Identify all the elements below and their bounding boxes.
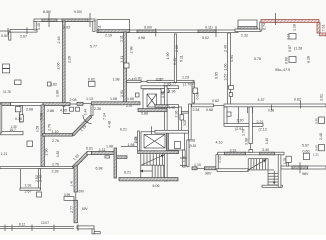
wall: W5 vertical to lobby (249, 107, 252, 144)
svg-text:1.91: 1.91 (25, 184, 32, 188)
dimension tick 2 (89, 13, 91, 27)
box 0.60 mid right (289, 57, 296, 63)
svg-text:5.11: 5.11 (180, 55, 184, 62)
svg-text:3.98: 3.98 (245, 138, 249, 145)
door leafs between corridor walls (161, 89, 165, 93)
box 0.60 right (304, 153, 310, 159)
rotated labels (35, 23, 324, 213)
svg-text:1.96: 1.96 (169, 90, 176, 94)
dimension tick on left wall (26, 28, 28, 35)
window: hatch2 in top wall (62, 19, 88, 22)
stair core center (119, 86, 218, 181)
svg-text:6.06: 6.06 (153, 184, 160, 188)
svg-text:2.36: 2.36 (175, 111, 179, 118)
door leaf box (193, 88, 198, 94)
svg-text:0.98: 0.98 (315, 118, 319, 124)
svg-text:95u–47.9: 95u–47.9 (275, 68, 290, 72)
svg-text:2.36: 2.36 (94, 107, 101, 111)
svg-text:1.21: 1.21 (313, 153, 319, 157)
svg-text:2.39: 2.39 (52, 170, 59, 174)
svg-text:2.06: 2.06 (57, 63, 61, 70)
svg-text:3.61: 3.61 (320, 94, 324, 101)
wall: top wall center long (130, 30, 239, 33)
stairs: flight separator (141, 164, 165, 166)
svg-text:3.82: 3.82 (50, 83, 57, 87)
wall: bath partition vertical x180 (179, 107, 182, 131)
wall: wing bottom right (281, 166, 326, 169)
door arc from H1 (83, 115, 92, 124)
wall: K vertical (228, 33, 231, 105)
svg-text:1.86: 1.86 (169, 106, 176, 110)
wall: H2 horizontal left part (192, 104, 214, 107)
svg-text:1.08: 1.08 (110, 97, 117, 101)
svg-text:16.7: 16.7 (10, 128, 16, 132)
svg-text:9.00\: 9.00\ (74, 10, 82, 14)
dimension tick (48, 13, 50, 27)
svg-text:0.60: 0.60 (303, 149, 310, 153)
svg-text:2.98: 2.98 (130, 47, 134, 54)
svg-text:2.31: 2.31 (99, 148, 106, 152)
svg-text:1.66: 1.66 (127, 97, 134, 101)
fixture boxes (15, 107, 21, 112)
svg-text:(1.28: (1.28 (294, 47, 302, 51)
wall: left step stub (9, 32, 11, 40)
U-room bottom wall (20, 188, 41, 190)
svg-text:6.21: 6.21 (120, 128, 127, 132)
pilaster above wing wall (286, 156, 291, 162)
wall: corridor H y81 right (147, 80, 194, 82)
svg-text:1.82: 1.82 (56, 151, 60, 157)
svg-text:7.14: 7.14 (103, 113, 107, 120)
svg-text:1.98: 1.98 (188, 139, 195, 143)
svg-text:1.13: 1.13 (86, 97, 93, 101)
wall: I white cap (87, 151, 92, 154)
wall: protrusion bottom L (77, 226, 94, 229)
svg-text:1.91: 1.91 (120, 90, 124, 97)
wall: core right vertical (165, 86, 168, 181)
door post left of elev1 (136, 93, 140, 97)
window: hatch center (137, 30, 156, 33)
box 0.62 room symbol (89, 81, 96, 86)
wall: stair bottom hatched (119, 178, 178, 181)
svg-text:1.10: 1.10 (194, 163, 201, 167)
elevator 1 inner X (147, 94, 157, 107)
stairs: left boundary line (140, 154, 142, 178)
wall: storage left vertical (224, 107, 227, 124)
svg-text:2.46: 2.46 (70, 180, 74, 186)
svg-text:(1.70: (1.70 (183, 83, 191, 87)
svg-text:4.11: 4.11 (120, 56, 124, 63)
wall: right section before balcony (235, 29, 261, 32)
svg-text:1.29: 1.29 (182, 76, 189, 80)
red rotated labels (293, 24, 326, 32)
window: hatch in top wall (42, 19, 57, 22)
svg-text:2.08: 2.08 (70, 98, 77, 102)
svg-text:1.58: 1.58 (36, 126, 40, 132)
svg-text:3.57: 3.57 (224, 74, 228, 81)
svg-text:2.48: 2.48 (319, 133, 323, 140)
wall: hatched landing below elev2 (138, 151, 179, 154)
stairs2: flight bottom line (248, 169, 274, 171)
svg-text:2.22: 2.22 (157, 78, 164, 82)
wall: I hatched horizontal (92, 151, 117, 154)
svg-text:8.12: 8.12 (19, 222, 25, 226)
svg-text:3.31: 3.31 (230, 148, 237, 152)
svg-text:9.00\: 9.00\ (144, 26, 152, 30)
wall: E horizontal (0, 167, 73, 169)
svg-text:0.62: 0.62 (294, 98, 301, 102)
svg-text:2.93: 2.93 (63, 26, 70, 30)
wall: left edge (0, 104, 2, 133)
wall: H1 hatch mid (43, 103, 70, 106)
svg-text:4.94: 4.94 (230, 55, 234, 62)
svg-text:98V: 98V (302, 172, 309, 176)
svg-text:1.76: 1.76 (283, 158, 287, 164)
svg-text:10.07: 10.07 (41, 221, 49, 225)
wall: protrusion vertical hatched upper (74, 166, 78, 192)
svg-text:0.62: 0.62 (88, 78, 95, 82)
wall: top wall left section (34, 19, 95, 22)
svg-text:11.76: 11.76 (3, 90, 11, 94)
wall: W1 hatched apartment divider (43, 134, 73, 137)
wall: vertical x187 lower (187, 140, 189, 167)
corridor box right of elev2 (169, 133, 185, 150)
stairs2: down arrow (273, 171, 275, 184)
wall: step up vertical (34, 21, 36, 30)
tiny box near 3.82 (48, 82, 52, 86)
wall: stair2 bottom (262, 185, 282, 187)
svg-text:1.90: 1.90 (166, 53, 170, 60)
wall: vertical x193 (192, 82, 195, 103)
svg-text:9.11\: 9.11\ (205, 26, 213, 30)
wall: main vertical V1 (63, 21, 66, 106)
svg-text:2.08: 2.08 (26, 108, 33, 112)
svg-text:2.20: 2.20 (237, 119, 244, 123)
svg-text:2.67: 2.67 (25, 190, 32, 194)
svg-text:1.91: 1.91 (161, 91, 165, 98)
svg-text:4.37: 4.37 (258, 98, 265, 102)
svg-text:4.48: 4.48 (108, 121, 112, 128)
wall: vertical x189 upper (189, 104, 192, 140)
box 0.61 top right (289, 34, 296, 40)
wall: vertical x91 below H1 (91, 105, 93, 116)
dimension tick (215, 26, 217, 37)
svg-text:0.50: 0.50 (1, 34, 8, 38)
dimension tick above elev2 (151, 126, 153, 134)
dimension tick at window end (155, 29, 157, 37)
wall: hatched below elev1 (138, 109, 167, 112)
svg-text:1.22: 1.22 (218, 156, 222, 163)
svg-text:7.11: 7.11 (98, 25, 102, 32)
svg-text:8.28: 8.28 (307, 56, 311, 63)
wall: step vertical x217 (216, 155, 218, 169)
svg-text:2.40: 2.40 (224, 45, 228, 52)
stairs: flight A treads (143, 154, 145, 165)
wall red: top-right horizontal (261, 20, 319, 23)
svg-text:0.68: 0.68 (206, 108, 213, 112)
svg-text:0.61: 0.61 (86, 147, 93, 151)
svg-text:1.66: 1.66 (224, 64, 228, 71)
svg-text:0.74: 0.74 (263, 23, 267, 30)
wall: main vertical V2 (124, 32, 127, 104)
window: hatch right (198, 30, 216, 33)
wall: protrusion vertical hatched lower (74, 200, 78, 223)
dimension tick black on red wall (275, 13, 277, 25)
stairs: arrow left (140, 170, 152, 172)
wall: thin corridor left of elev2 (138, 131, 140, 151)
svg-text:4.10: 4.10 (216, 141, 223, 145)
svg-text:98V: 98V (205, 172, 212, 176)
svg-text:1.70: 1.70 (183, 156, 187, 162)
stairs2: lower treads (268, 172, 281, 174)
svg-text:2.76: 2.76 (52, 139, 59, 143)
dimension line bottom (0, 226, 74, 228)
svg-text:1.81: 1.81 (135, 77, 142, 81)
svg-text:0.60: 0.60 (285, 57, 289, 64)
svg-text:1.70: 1.70 (242, 129, 246, 136)
door box on storage wall (227, 112, 231, 116)
elevator 2 outer (141, 132, 166, 151)
small boxes right edge (319, 117, 325, 124)
svg-text:1.98: 1.98 (106, 144, 113, 148)
svg-text:0.87: 0.87 (288, 45, 292, 52)
wire: H2 opening (214, 104, 225, 106)
window: 3.31 (224, 152, 245, 155)
svg-text:5.67: 5.67 (302, 144, 309, 148)
svg-text:6.95: 6.95 (215, 72, 219, 79)
stairs2: upper treads (247, 159, 249, 170)
svg-text:4.98: 4.98 (138, 36, 145, 40)
wall: diagonal1 hatched (72, 152, 89, 169)
wall: lobby top (218, 152, 284, 155)
stairs2: lower flight rails (267, 170, 269, 185)
wall: stub left of J (117, 156, 128, 159)
wall: vertical x176 (174, 34, 176, 83)
window: 98V (292, 166, 308, 169)
inner box in corridor (175, 142, 181, 149)
door sill box (64, 197, 74, 201)
svg-text:2.77: 2.77 (70, 206, 74, 213)
svg-text:69V: 69V (82, 207, 89, 211)
svg-text:1.77: 1.77 (170, 82, 176, 86)
window: 3.40 (260, 152, 275, 155)
svg-text:1.10: 1.10 (293, 24, 297, 31)
svg-text:1.55: 1.55 (134, 137, 138, 144)
wire: V1 stub below (64, 106, 71, 114)
stairs: flight B treads (151, 166, 153, 178)
wall: vertical at x93 (93, 21, 95, 32)
svg-text:6.21: 6.21 (124, 171, 131, 175)
svg-text:2.88: 2.88 (47, 109, 54, 113)
wall: H1 hatched right part (77, 102, 83, 105)
svg-text:69V: 69V (79, 190, 86, 194)
wall: H2 horizontal right part (224, 104, 326, 107)
ticks below H2 (247, 107, 249, 113)
svg-text:1.21: 1.21 (1, 152, 8, 156)
wall: corridor H y81 left (127, 80, 142, 82)
red walls (261, 20, 326, 36)
wall: storage bottom horizontal (224, 124, 263, 127)
wire: protrusion door line (75, 192, 77, 200)
door posts below H1 gap (70, 107, 74, 111)
wire: corridor door opening (141, 80, 147, 82)
svg-text:2.76: 2.76 (52, 162, 59, 166)
wall: diagonal2 hatched (72, 115, 92, 136)
svg-text:2.42: 2.42 (39, 175, 43, 182)
svg-text:2.90: 2.90 (45, 149, 49, 156)
wire: top-left window line (0, 30, 10, 32)
svg-text:8.56\: 8.56\ (43, 10, 51, 14)
svg-text:1.40: 1.40 (265, 138, 269, 144)
svg-text:5.98: 5.98 (40, 113, 44, 120)
wall: bath bottom (0, 131, 23, 134)
stairs: diagonal arrow up (142, 155, 164, 165)
svg-text:(2.13: (2.13 (259, 127, 267, 131)
window: balcony sill (97, 30, 130, 33)
svg-text:2.21: 2.21 (257, 120, 264, 124)
svg-text:0.62: 0.62 (196, 93, 200, 100)
svg-text:1.10: 1.10 (52, 130, 59, 134)
svg-text:2.19: 2.19 (105, 34, 112, 38)
wall red: right vertical (317, 23, 320, 34)
door boxes right of K (229, 86, 234, 90)
svg-text:1.80: 1.80 (56, 90, 60, 97)
door leaf box on V2 (124, 63, 129, 68)
svg-text:1.11: 1.11 (120, 35, 124, 42)
wall: connector black near red (260, 22, 262, 30)
wire: entrance door line (197, 167, 204, 169)
svg-text:2.76: 2.76 (48, 124, 52, 131)
wire: storage divider (238, 107, 240, 124)
wall: H1 left edge hatch (0, 103, 11, 106)
step lines left of entrance (180, 157, 187, 159)
svg-text:2.86: 2.86 (175, 45, 179, 52)
box 0.45 (37, 192, 42, 197)
balcony: top-right box (238, 20, 257, 29)
wall: top-left lower wall (10, 30, 37, 33)
wall: stair core top (141, 86, 179, 89)
svg-text:2.26: 2.26 (68, 56, 72, 63)
window: top-right balcony sill (238, 27, 257, 29)
svg-text:4.55: 4.55 (60, 109, 67, 113)
wall: bath H y130 (155, 130, 189, 133)
svg-text:0.41: 0.41 (173, 58, 177, 65)
wall red: exit right (320, 33, 326, 36)
svg-text:1.02: 1.02 (191, 81, 195, 87)
svg-text:0.62: 0.62 (212, 99, 219, 103)
svg-text:1.46: 1.46 (37, 23, 41, 30)
dimension tick on wing wall (299, 162, 301, 173)
door leaf (180, 115, 184, 120)
wire: dim line left of elev2 (121, 146, 137, 148)
svg-text:0.78: 0.78 (15, 117, 22, 121)
wall: bath small H y111 (182, 111, 189, 113)
wall: entrance hatched (192, 167, 197, 170)
wall: J vertical (114, 148, 117, 178)
wall: lobby bottom (217, 169, 248, 172)
svg-text:2.46: 2.46 (57, 37, 61, 44)
svg-text:3.05: 3.05 (183, 120, 187, 126)
svg-text:5.88: 5.88 (141, 112, 148, 116)
U-room left line (20, 169, 22, 189)
wall: bath left vertical (20, 106, 23, 122)
svg-text:1.44: 1.44 (84, 109, 88, 115)
svg-text:5.77: 5.77 (90, 45, 97, 49)
wall: H1 white mid (11, 103, 44, 106)
right wing (174, 33, 326, 187)
svg-text:6.98: 6.98 (96, 167, 103, 171)
svg-text:2.0\: 2.0\ (126, 104, 132, 108)
stairs2: upper flight top line (248, 158, 268, 160)
svg-text:1.98: 1.98 (113, 78, 120, 82)
svg-text:0.60: 0.60 (315, 145, 319, 151)
wire: W5 door opening (250, 144, 252, 150)
svg-text:7.61: 7.61 (322, 25, 326, 32)
balcony: top-center box (97, 20, 130, 33)
svg-text:0.61: 0.61 (286, 33, 290, 39)
svg-text:0.99: 0.99 (64, 193, 70, 197)
elevator 1 outer (143, 89, 161, 110)
U-room right wall (39, 169, 41, 189)
svg-text:5.02: 5.02 (202, 36, 209, 40)
wall: bath H hatched y104 (155, 105, 168, 108)
wall: vertical x183 (183, 150, 186, 167)
wire: H1 door gap lines (70, 103, 77, 105)
wall: stair2 right (278, 155, 281, 188)
stairs2: diagonal arrow (247, 160, 266, 171)
svg-text:(9.81: (9.81 (189, 144, 196, 148)
wall: D vertical hatched (41, 105, 45, 167)
svg-text:2.54: 2.54 (193, 108, 200, 112)
svg-text:2.67: 2.67 (20, 35, 27, 39)
svg-text:2.32: 2.32 (241, 34, 248, 38)
svg-text:0.56: 0.56 (268, 109, 274, 113)
svg-text:3.40: 3.40 (262, 148, 269, 152)
svg-text:5.78: 5.78 (254, 57, 261, 61)
elevator 2 inner X (144, 134, 165, 148)
